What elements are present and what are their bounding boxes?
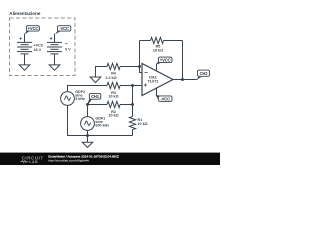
battery V1 plus sign (19, 37, 21, 39)
svg-text:10 kΩ: 10 kΩ (138, 122, 148, 126)
svg-text:+VCC: +VCC (28, 26, 39, 31)
net flag CH2 (197, 70, 210, 80)
svg-text:LAB: LAB (29, 160, 38, 164)
svg-text:3 kHz: 3 kHz (75, 97, 85, 101)
CircuitLab logo (22, 155, 44, 164)
wire noninverting node vertical (132, 86, 134, 105)
wire R4 to inverting node (120, 66, 140, 68)
source GDF2 (sine 3 kHz) (61, 92, 75, 106)
resistor R3 (107, 82, 120, 88)
wire GDF1 top to R2 node (87, 105, 89, 117)
resistor R5 (151, 37, 164, 43)
CircuitLab logo zigzag (20, 161, 28, 163)
GDF2 labels (75, 90, 85, 101)
wire R1 to bottom rail (132, 130, 134, 136)
wire GDF2 bottom rail (68, 105, 133, 135)
wire flag to battery V1 (24, 34, 26, 43)
net flag +VCC (op-amp) (156, 57, 172, 65)
svg-text:TL071: TL071 (148, 79, 159, 83)
wire inverting node to opamp minus input (140, 67, 143, 73)
svg-text:-VCC: -VCC (160, 96, 170, 101)
node inverting junction (138, 65, 141, 68)
ground (battery V1) (19, 65, 30, 70)
wire GDF2 top to R3 (68, 86, 108, 92)
R2 labels (108, 110, 118, 118)
wire battery V1 to ground (24, 54, 26, 65)
wire battery V2 to ground (54, 54, 56, 65)
wire feedback top left (140, 40, 151, 42)
battery V2 plus sign (50, 37, 52, 39)
net flag -VCC (battery V2) (55, 26, 71, 35)
wire R3 to noninverting node (120, 85, 133, 87)
ground (R4 reference) (90, 67, 107, 83)
R4 labels (105, 72, 116, 81)
wire node down to R1 (132, 105, 134, 117)
R5 labels (153, 45, 163, 53)
wire feedback left vertical (139, 41, 141, 67)
wire CH1 node to R2 (88, 104, 108, 106)
svg-text:http://circuitlab.com/c/9gdw4e: http://circuitlab.com/c/9gdw4e (48, 159, 89, 163)
ground (battery V2) (49, 65, 60, 70)
op-amp plus mark (144, 84, 147, 87)
svg-text:600 kHz: 600 kHz (95, 123, 109, 127)
svg-text:18 V: 18 V (34, 48, 42, 52)
svg-text:CH1: CH1 (91, 94, 100, 99)
battery V2 plates (47, 42, 62, 54)
battery V2 labels - 9 V (65, 43, 67, 45)
net flag -VCC (op-amp) (156, 95, 172, 102)
net flag CH1 (87, 93, 101, 104)
wire feedback top right (164, 40, 183, 42)
wire GDF1 bottom (87, 130, 89, 135)
op-amp bottom power pin (156, 88, 158, 96)
wire node to opamp plus input (133, 85, 143, 87)
resistor R1 (129, 117, 135, 130)
R3 labels (108, 91, 118, 99)
svg-text:9 V: 9 V (65, 47, 71, 51)
svg-text:+VCC: +VCC (160, 58, 171, 63)
resistor R2 (107, 101, 120, 107)
battery V1 labels +VCC 18 V (34, 43, 44, 52)
net flag +VCC (battery V1) (25, 26, 40, 35)
svg-text:+VCC: +VCC (34, 43, 44, 47)
svg-text:CH2: CH2 (200, 71, 209, 76)
node R2/R1 junction (131, 103, 134, 106)
GDF1 labels (95, 116, 109, 127)
op-amp labels (148, 75, 159, 83)
svg-text:18 kΩ: 18 kΩ (153, 49, 163, 53)
wire R2 to node (120, 104, 133, 106)
node CH1 junction (86, 103, 89, 106)
op-amp OA1 TL071 (142, 64, 173, 96)
svg-text:10 kΩ: 10 kΩ (108, 114, 118, 118)
wire opamp output (173, 79, 197, 81)
node bottom rail junction (86, 134, 89, 137)
power section dashed frame (10, 18, 76, 76)
ground (bottom rail) (82, 136, 93, 148)
svg-text:-VCC: -VCC (59, 26, 69, 31)
wire flag to battery V2 (54, 34, 56, 43)
watermark bar (0, 153, 220, 165)
op-amp top power pin (156, 64, 158, 71)
svg-text:2.2 kΩ: 2.2 kΩ (105, 76, 116, 80)
wire feedback right vertical (182, 41, 184, 80)
svg-text:Alimentazione: Alimentazione (9, 11, 41, 16)
R1 labels (138, 118, 148, 126)
node output junction (181, 78, 184, 81)
op-amp minus mark (145, 72, 148, 74)
resistor R4 (107, 63, 120, 69)
node R3/R2 junction (131, 84, 134, 87)
svg-text:10 kΩ: 10 kΩ (108, 95, 118, 99)
source GDF1 (sine 600 kHz) (81, 117, 95, 131)
battery V1 plates (17, 42, 32, 54)
